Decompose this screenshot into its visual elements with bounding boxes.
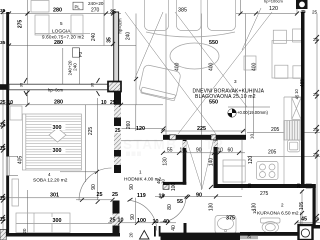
- svg-text:25: 25: [0, 123, 6, 129]
- left exterior wall with window: [6, 12, 9, 157]
- svg-text:19: 19: [159, 194, 165, 200]
- svg-text:10: 10: [218, 148, 224, 154]
- svg-text:130: 130: [163, 157, 169, 166]
- svg-text:40: 40: [163, 219, 169, 225]
- svg-text:5: 5: [60, 21, 63, 26]
- svg-text:120: 120: [269, 6, 278, 12]
- V2 wall: [214, 140, 218, 188]
- svg-text:119: 119: [137, 193, 146, 199]
- right wall: [301, 12, 305, 184]
- svg-text:130: 130: [209, 203, 215, 212]
- svg-text:90: 90: [196, 148, 202, 154]
- svg-text:275: 275: [260, 191, 269, 197]
- kupaona north wall (kitchen/bathroom divider): [214, 184, 316, 188]
- shaft bottom right: [299, 225, 313, 240]
- svg-text:PL: PL: [75, 5, 81, 10]
- V1 wall: [183, 140, 187, 185]
- tilted sideboard: [141, 87, 176, 101]
- svg-text:300: 300: [53, 148, 62, 154]
- svg-text:205: 205: [268, 150, 277, 156]
- loggia: [73, 2, 83, 10]
- svg-text:35: 35: [0, 40, 6, 46]
- toilet: [261, 218, 281, 223]
- svg-text:375: 375: [226, 216, 235, 222]
- svg-text:SOBA 12.20 m2: SOBA 12.20 m2: [33, 178, 68, 184]
- divider wall loggia/living: [114, 12, 119, 82]
- svg-text:10: 10: [180, 148, 186, 154]
- svg-text:240: 240: [91, 33, 97, 42]
- svg-text:35: 35: [90, 82, 95, 87]
- dining set right: [273, 30, 286, 43]
- svg-text:25: 25: [0, 217, 6, 223]
- svg-text:BLAGOVAONA 25.10 m2: BLAGOVAONA 25.10 m2: [195, 94, 256, 100]
- svg-text:90: 90: [129, 184, 135, 190]
- svg-text:25: 25: [110, 100, 116, 106]
- svg-text:280: 280: [54, 40, 63, 46]
- svg-text:225: 225: [88, 127, 94, 136]
- partition wall hodnik/kitchen (horizontal): [163, 135, 246, 140]
- svg-text:35: 35: [19, 82, 24, 87]
- svg-text:hp=0cm: hp=0cm: [118, 18, 123, 34]
- svg-text:400: 400: [252, 62, 258, 71]
- svg-text:45: 45: [301, 9, 307, 14]
- kitchen counter: [283, 97, 285, 120]
- svg-text:10: 10: [250, 134, 255, 140]
- bottom wall center/right: [161, 233, 241, 240]
- svg-text:140: 140: [209, 158, 215, 167]
- svg-text:90: 90: [130, 214, 136, 220]
- svg-text:KUPAONA 6.50 m2: KUPAONA 6.50 m2: [257, 211, 299, 217]
- soba/hodnik wall lower: [113, 201, 120, 214]
- svg-text:25: 25: [313, 152, 319, 157]
- svg-text:35: 35: [0, 8, 6, 14]
- entrance door: [129, 200, 157, 230]
- svg-text:10: 10: [8, 100, 14, 106]
- svg-text:80: 80: [167, 204, 173, 210]
- svg-text:400: 400: [175, 62, 181, 71]
- svg-text:550: 550: [209, 40, 218, 46]
- svg-text:2: 2: [281, 203, 284, 208]
- svg-text:20: 20: [22, 228, 27, 233]
- svg-text:100: 100: [171, 183, 177, 192]
- svg-text:1: 1: [139, 170, 142, 175]
- svg-text:hp=0cm: hp=0cm: [48, 88, 64, 93]
- level marker: [228, 109, 236, 117]
- svg-text:301: 301: [50, 193, 59, 199]
- svg-text:120: 120: [136, 126, 145, 132]
- svg-text:300: 300: [53, 218, 62, 224]
- stove: [257, 162, 279, 180]
- svg-text:9.60x0.75=7.20 m2: 9.60x0.75=7.20 m2: [42, 35, 84, 40]
- svg-text:60: 60: [228, 148, 234, 154]
- svg-text:40: 40: [171, 225, 177, 231]
- svg-text:25: 25: [112, 192, 118, 198]
- svg-text:385: 385: [178, 8, 187, 14]
- kupaona door: [160, 196, 186, 222]
- svg-text:35: 35: [110, 10, 116, 16]
- svg-text:25: 25: [0, 196, 6, 202]
- svg-text:90: 90: [196, 193, 202, 199]
- chimney box: [108, 82, 121, 92]
- svg-text:400: 400: [209, 62, 215, 71]
- svg-text:10: 10: [294, 89, 299, 94]
- svg-text:3: 3: [234, 79, 237, 84]
- svg-text:25: 25: [314, 217, 320, 222]
- svg-text:275: 275: [18, 20, 24, 29]
- svg-text:20: 20: [296, 183, 301, 188]
- svg-text:25: 25: [0, 100, 6, 106]
- kupaona west wall below door: [184, 223, 187, 233]
- bed: [22, 114, 81, 170]
- svg-text:45: 45: [301, 217, 307, 223]
- svg-text:240: 240: [126, 32, 132, 41]
- svg-text:270: 270: [91, 8, 100, 14]
- svg-text:405: 405: [18, 156, 24, 165]
- svg-text:105: 105: [299, 202, 305, 211]
- svg-text:+0.00(19.00mm): +0.00(19.00mm): [237, 110, 268, 115]
- loggia furniture: [31, 1, 49, 13]
- top right column: [296, 0, 308, 9]
- svg-text:280: 280: [53, 8, 62, 14]
- svg-text:P3: P3: [78, 51, 83, 57]
- svg-text:55: 55: [177, 199, 183, 205]
- svg-text:120: 120: [248, 156, 254, 165]
- entrance triangle: [140, 231, 150, 240]
- watermark: [123, 137, 223, 156]
- svg-text:240: 240: [73, 63, 78, 71]
- wardrobe: [16, 213, 70, 233]
- soba: [52, 124, 66, 130]
- svg-text:4: 4: [48, 172, 51, 177]
- svg-text:35: 35: [107, 37, 113, 43]
- svg-text:280: 280: [54, 100, 63, 106]
- svg-text:25: 25: [110, 218, 116, 224]
- svg-text:10: 10: [252, 209, 257, 214]
- svg-text:20: 20: [247, 183, 252, 188]
- dining table oval: [170, 43, 219, 69]
- svg-text:20: 20: [247, 233, 252, 238]
- stub left of V1: [163, 182, 186, 185]
- svg-text:240+20: 240+20: [88, 1, 104, 6]
- svg-text:25: 25: [313, 37, 319, 42]
- svg-text:hp=100cm: hp=100cm: [264, 0, 283, 4]
- hodnik & doors: [89, 182, 95, 193]
- top sofa: [145, 0, 169, 31]
- nightstand: [10, 106, 22, 120]
- svg-text:100: 100: [137, 218, 146, 224]
- svg-text:205: 205: [271, 127, 280, 133]
- dresser left: [12, 179, 19, 206]
- loggia railing band: [0, 84, 9, 90]
- shaft V-mark: [187, 140, 214, 189]
- svg-text:260: 260: [126, 121, 132, 130]
- entrance post: [154, 226, 156, 237]
- svg-text:10: 10: [118, 218, 124, 224]
- soba door: [79, 168, 112, 201]
- svg-text:25: 25: [97, 192, 103, 198]
- svg-text:20: 20: [129, 232, 134, 237]
- svg-text:300: 300: [53, 125, 62, 131]
- svg-text:485: 485: [300, 79, 306, 88]
- tilted armchair: [139, 64, 182, 99]
- svg-text:55: 55: [167, 148, 173, 154]
- kitchen cabinet: [223, 160, 245, 182]
- svg-text:90: 90: [91, 184, 97, 190]
- svg-text:225: 225: [197, 126, 206, 132]
- wall between soba and hodnik (upper, with hatched piers): [114, 92, 121, 105]
- svg-text:25: 25: [312, 10, 318, 15]
- svg-text:25: 25: [313, 92, 319, 97]
- svg-text:550: 550: [209, 100, 218, 106]
- bottom wall left: [0, 233, 120, 237]
- svg-text:25: 25: [0, 146, 6, 152]
- svg-text:25: 25: [115, 128, 121, 134]
- svg-text:10: 10: [161, 179, 166, 184]
- svg-text:25: 25: [313, 127, 319, 132]
- svg-text:10: 10: [153, 219, 159, 225]
- svg-text:10: 10: [101, 100, 107, 106]
- vanity: [215, 216, 236, 234]
